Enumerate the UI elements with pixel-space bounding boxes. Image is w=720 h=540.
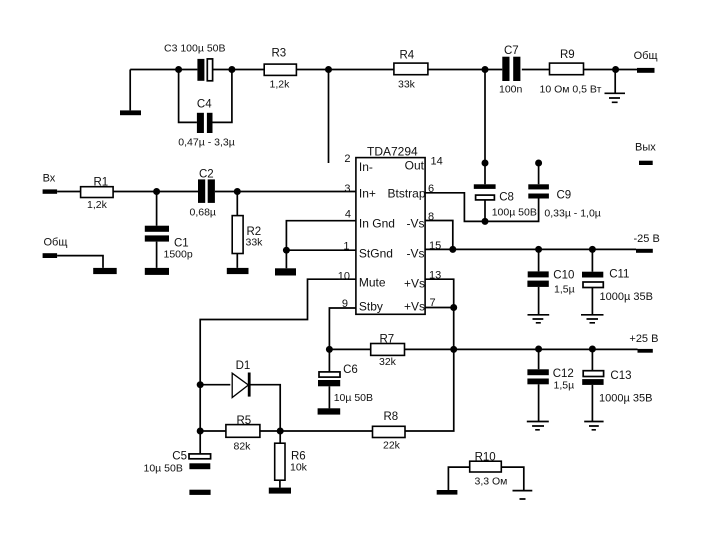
svg-text:In+: In+ (359, 187, 376, 201)
svg-text:15: 15 (429, 240, 441, 252)
svg-text:0,68µ: 0,68µ (190, 207, 217, 219)
svg-text:C8: C8 (499, 192, 514, 204)
svg-text:Mute: Mute (359, 276, 386, 290)
svg-text:10 Ом 0,5 Вт: 10 Ом 0,5 Вт (540, 84, 602, 96)
svg-text:C12: C12 (553, 368, 574, 380)
svg-text:1000µ 35В: 1000µ 35В (600, 291, 653, 303)
svg-text:3,3 Ом: 3,3 Ом (475, 476, 508, 488)
svg-text:StGnd: StGnd (359, 247, 393, 261)
svg-text:Общ: Общ (44, 237, 68, 249)
svg-text:22k: 22k (383, 440, 401, 452)
svg-text:1500p: 1500p (164, 249, 193, 261)
svg-text:C4: C4 (197, 99, 212, 111)
svg-text:C6: C6 (343, 364, 358, 376)
svg-text:10: 10 (338, 271, 350, 283)
svg-text:0,47µ - 3,3µ: 0,47µ - 3,3µ (178, 137, 234, 149)
svg-text:C11: C11 (609, 269, 629, 281)
svg-text:32k: 32k (379, 356, 397, 368)
svg-text:7: 7 (430, 297, 436, 309)
svg-text:1,2k: 1,2k (270, 79, 291, 91)
svg-text:R8: R8 (384, 411, 399, 423)
svg-text:D1: D1 (236, 360, 251, 372)
svg-text:+25 В: +25 В (629, 333, 658, 345)
svg-text:In-: In- (359, 160, 373, 174)
svg-text:R5: R5 (237, 415, 252, 427)
svg-text:R9: R9 (560, 49, 575, 61)
svg-text:0,33µ - 1,0µ: 0,33µ - 1,0µ (544, 208, 600, 220)
svg-text:R2: R2 (247, 226, 262, 238)
svg-text:13: 13 (429, 269, 441, 281)
svg-text:10k: 10k (290, 462, 308, 474)
svg-text:6: 6 (428, 183, 434, 195)
svg-text:33k: 33k (246, 237, 264, 249)
svg-text:R10: R10 (475, 451, 496, 463)
svg-text:Вых: Вых (635, 142, 656, 154)
svg-text:8: 8 (428, 211, 434, 223)
svg-text:1,5µ: 1,5µ (554, 284, 575, 296)
svg-text:C9: C9 (557, 190, 572, 202)
svg-text:R4: R4 (400, 50, 415, 62)
svg-text:TDA7294: TDA7294 (367, 145, 418, 159)
svg-text:4: 4 (345, 209, 351, 221)
svg-text:R7: R7 (380, 334, 395, 346)
svg-text:-Vs: -Vs (407, 217, 425, 231)
svg-text:10µ 50В: 10µ 50В (334, 392, 373, 404)
svg-text:1000µ 35В: 1000µ 35В (599, 393, 652, 405)
svg-text:1: 1 (343, 241, 349, 253)
svg-text:Btstrap: Btstrap (387, 187, 425, 201)
svg-text:R1: R1 (94, 177, 109, 189)
svg-text:10µ 50В: 10µ 50В (144, 463, 183, 475)
svg-text:1,5µ: 1,5µ (554, 380, 575, 392)
svg-text:82k: 82k (234, 441, 252, 453)
svg-text:9: 9 (342, 298, 348, 310)
svg-text:Stby: Stby (359, 300, 383, 314)
svg-text:Out: Out (405, 159, 425, 173)
svg-text:100n: 100n (499, 84, 523, 96)
svg-text:C7: C7 (504, 45, 519, 57)
svg-text:C5: C5 (172, 451, 187, 463)
svg-text:100µ 50В: 100µ 50В (492, 207, 537, 219)
svg-text:3: 3 (344, 183, 350, 195)
svg-text:С3 100µ 50В: С3 100µ 50В (164, 43, 226, 55)
svg-text:C13: C13 (610, 370, 631, 382)
svg-text:Вх: Вх (43, 173, 56, 185)
svg-text:14: 14 (431, 156, 443, 168)
svg-text:1,2k: 1,2k (87, 199, 108, 211)
svg-text:-Vs: -Vs (407, 247, 425, 261)
svg-text:R6: R6 (291, 451, 306, 463)
svg-text:R3: R3 (272, 48, 287, 60)
svg-text:In Gnd: In Gnd (359, 217, 395, 231)
svg-text:C2: C2 (199, 169, 214, 181)
svg-text:C10: C10 (553, 270, 574, 282)
svg-text:-25 В: -25 В (634, 233, 660, 245)
svg-text:C1: C1 (174, 238, 189, 250)
svg-text:2: 2 (344, 153, 350, 165)
svg-text:33k: 33k (398, 79, 416, 91)
svg-text:+Vs: +Vs (404, 277, 425, 291)
svg-text:+Vs: +Vs (404, 300, 425, 314)
svg-text:Общ: Общ (634, 50, 658, 62)
